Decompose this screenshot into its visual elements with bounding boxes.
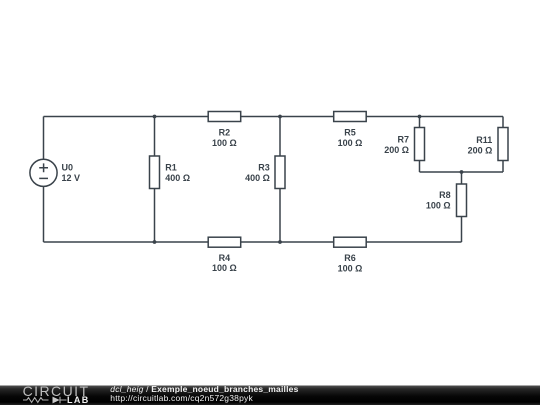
wire bottom horizontal net bbox=[44, 241, 462, 243]
label R5 100 ohm bbox=[338, 128, 363, 148]
label R8 100 ohm bbox=[426, 190, 451, 210]
label R6 100 ohm bbox=[338, 253, 363, 273]
wire R11 branch bbox=[502, 117, 504, 173]
label R7 200 ohm bbox=[384, 134, 409, 155]
resistor R3 bbox=[275, 156, 285, 189]
svg-text:R6: R6 bbox=[344, 253, 356, 263]
resistor R5 bbox=[334, 112, 367, 122]
resistor R11 bbox=[498, 128, 508, 161]
svg-text:12 V: 12 V bbox=[62, 173, 81, 183]
svg-text:100 Ω: 100 Ω bbox=[212, 263, 237, 273]
resistor R4 bbox=[208, 237, 241, 247]
svg-text:100 Ω: 100 Ω bbox=[338, 138, 363, 148]
svg-text:R8: R8 bbox=[439, 190, 451, 200]
label U0 12 V bbox=[62, 162, 81, 183]
label R1 400 ohm bbox=[165, 162, 190, 183]
svg-text:100 Ω: 100 Ω bbox=[338, 263, 363, 273]
junction node R7 top bbox=[418, 115, 422, 119]
wire R1 branch bbox=[154, 117, 156, 243]
CircuitLab logo bbox=[23, 383, 90, 405]
wire R3 branch bbox=[279, 117, 281, 243]
resistor R1 bbox=[150, 156, 160, 189]
wire R7-R11 bottom link bbox=[420, 171, 504, 173]
junction node R1 top bbox=[153, 115, 157, 119]
junction node R8 top bbox=[460, 170, 464, 174]
svg-text:R7: R7 bbox=[397, 134, 409, 144]
svg-text:400 Ω: 400 Ω bbox=[165, 173, 190, 183]
resistor R7 bbox=[415, 128, 425, 161]
resistor R6 bbox=[334, 237, 367, 247]
svg-text:200 Ω: 200 Ω bbox=[384, 145, 409, 155]
footer bar bbox=[0, 386, 540, 405]
svg-text:R2: R2 bbox=[219, 128, 231, 138]
voltage source U0 bbox=[30, 159, 57, 186]
wire R7 branch bbox=[419, 117, 421, 173]
wire left branch with source bbox=[43, 117, 45, 243]
label R4 100 ohm bbox=[212, 253, 237, 273]
resistor R2 bbox=[208, 112, 241, 122]
svg-text:R5: R5 bbox=[344, 128, 356, 138]
svg-text:http://circuitlab.com/cq2n572g: http://circuitlab.com/cq2n572g38pyk bbox=[110, 393, 253, 403]
label R3 400 ohm bbox=[245, 162, 270, 183]
svg-text:R4: R4 bbox=[219, 253, 231, 263]
junction node R3 bottom bbox=[278, 240, 282, 244]
label R2 100 ohm bbox=[212, 128, 237, 148]
svg-text:200 Ω: 200 Ω bbox=[468, 145, 493, 155]
resistor R8 bbox=[457, 184, 467, 217]
svg-text:LAB: LAB bbox=[67, 395, 90, 405]
svg-text:100 Ω: 100 Ω bbox=[426, 200, 451, 210]
svg-text:R3: R3 bbox=[258, 162, 270, 172]
svg-text:R11: R11 bbox=[476, 135, 492, 145]
junction node R1 bottom bbox=[153, 240, 157, 244]
svg-text:U0: U0 bbox=[62, 162, 74, 172]
svg-text:100 Ω: 100 Ω bbox=[212, 138, 237, 148]
svg-text:R1: R1 bbox=[165, 162, 177, 172]
wire R8 branch bbox=[461, 172, 463, 242]
svg-text:400 Ω: 400 Ω bbox=[245, 173, 270, 183]
junction node R3 top bbox=[278, 115, 282, 119]
wire top horizontal net bbox=[44, 116, 504, 118]
label R11 200 ohm bbox=[468, 135, 493, 156]
